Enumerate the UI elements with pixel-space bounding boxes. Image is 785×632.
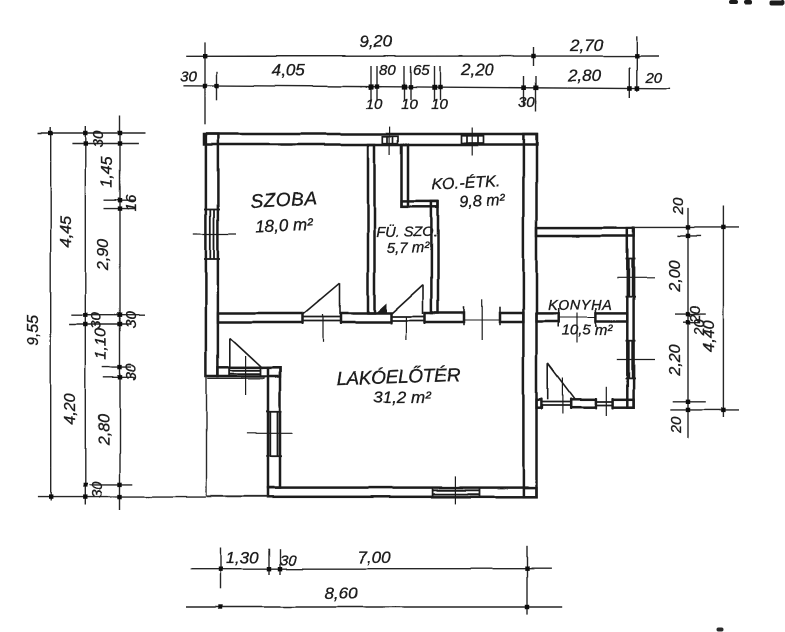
- svg-text:1,10: 1,10: [93, 328, 110, 359]
- chimney C2: [462, 128, 484, 156]
- wall left: [206, 134, 218, 377]
- wall L upper: [402, 145, 409, 207]
- dimension chains left: [38, 116, 206, 511]
- svg-text:5,7 m²: 5,7 m²: [387, 240, 431, 257]
- tick y401.8: [673, 401, 706, 403]
- dots bottom: [218, 567, 529, 610]
- svg-text:31,2 m²: 31,2 m²: [373, 388, 432, 407]
- svg-text:FÜ. SZO.: FÜ. SZO.: [376, 223, 437, 241]
- chain L2: [84, 126, 86, 505]
- window W4 bottom: [433, 489, 480, 491]
- ext y143.5: [72, 143, 139, 145]
- extension x205: [204, 42, 206, 124]
- extension x220.5: [220, 548, 222, 589]
- door D3 ko-etk opening: [464, 319, 500, 321]
- svg-text:2,20: 2,20: [460, 60, 495, 79]
- svg-text:8,60: 8,60: [324, 584, 358, 603]
- dimension chains right: [634, 206, 739, 438]
- svg-text:80: 80: [379, 62, 396, 79]
- door D2 swing: [422, 285, 424, 314]
- wall szoba east: [368, 145, 375, 314]
- svg-text:30: 30: [180, 68, 197, 85]
- ext y409.9: [670, 409, 739, 411]
- svg-text:20: 20: [644, 70, 662, 87]
- svg-text:16: 16: [123, 194, 140, 211]
- stray mark bottom edge: [716, 628, 723, 632]
- wall mid a: [218, 313, 303, 322]
- ext y315.2: [71, 314, 145, 316]
- window W2 sw: [229, 370, 260, 372]
- tick y200.2: [104, 199, 136, 201]
- chain L3: [119, 116, 121, 511]
- porch left line: [206, 377, 208, 497]
- svg-text:30: 30: [123, 363, 140, 380]
- door D1 swing: [339, 283, 341, 314]
- svg-text:10: 10: [431, 96, 448, 113]
- wall top: [204, 134, 537, 145]
- tick y322.2: [683, 321, 700, 323]
- dots top: [203, 54, 639, 91]
- door D1 szoba threshold: [303, 316, 341, 318]
- dim line C: [190, 568, 551, 570]
- svg-text:2,20: 2,20: [667, 344, 684, 376]
- dim line A: [186, 55, 659, 57]
- porch outline: [207, 377, 269, 497]
- wall annex east: [627, 228, 633, 408]
- svg-text:LAKÓELŐTÉR: LAKÓELŐTÉR: [336, 364, 461, 390]
- extension x217: [216, 71, 218, 100]
- tick pair x434 x440: [433, 66, 435, 100]
- svg-text:10,5 m²: 10,5 m²: [562, 322, 614, 339]
- svg-text:20: 20: [670, 197, 687, 215]
- svg-text:20: 20: [668, 416, 685, 434]
- svg-text:4,40: 4,40: [701, 320, 718, 351]
- dim labels top: [180, 32, 663, 113]
- wall annex divider b: [596, 313, 627, 321]
- wall annex divider a: [537, 313, 559, 321]
- dots left: [49, 131, 123, 500]
- svg-text:9,8 m²: 9,8 m²: [459, 192, 506, 211]
- wall L lower: [431, 201, 438, 313]
- door D7 sw swing: [229, 338, 231, 368]
- svg-text:SZOBA: SZOBA: [250, 188, 318, 212]
- tick pair x524 x536: [523, 76, 525, 106]
- chimney C1: [383, 127, 398, 155]
- svg-text:30: 30: [518, 94, 535, 111]
- window W5 annex east upper: [628, 259, 630, 297]
- ext y227.4: [634, 226, 739, 228]
- dim labels left (rotated): [25, 130, 140, 498]
- tick y367.1: [102, 366, 131, 368]
- wall annex top: [537, 228, 634, 236]
- door D6 annex bottom opening2: [596, 401, 613, 403]
- svg-text:2,00: 2,00: [667, 260, 684, 292]
- svg-text:30: 30: [88, 312, 105, 329]
- svg-text:4,45: 4,45: [58, 216, 75, 247]
- wall L horizontal: [402, 201, 439, 206]
- svg-text:7,00: 7,00: [357, 548, 391, 567]
- window W1 left (szoba): [209, 210, 211, 260]
- tick y377.3: [103, 376, 135, 378]
- dimension lines top: [183, 36, 669, 125]
- chain L1: [50, 127, 52, 501]
- svg-text:65: 65: [412, 62, 429, 79]
- wall annex bottom b: [571, 400, 596, 408]
- svg-text:30: 30: [280, 552, 297, 569]
- chain R2: [722, 206, 724, 417]
- window W3 west lower: [269, 411, 271, 455]
- wall mid d: [500, 313, 523, 322]
- black triangle threshold mark: [375, 303, 387, 314]
- ext y235.9: [677, 235, 701, 237]
- wall mid c: [425, 313, 464, 322]
- porch bottom line: [207, 495, 269, 497]
- walls group: [204, 134, 634, 497]
- door D4 annex divider opening: [558, 317, 596, 319]
- svg-text:KONYHA: KONYHA: [548, 298, 613, 314]
- svg-text:2,80: 2,80: [96, 414, 113, 446]
- tick x269: [268, 549, 270, 575]
- svg-text:4,05: 4,05: [272, 61, 306, 80]
- ext y497.1: [38, 496, 206, 498]
- svg-text:10: 10: [366, 96, 383, 113]
- ext y133: [38, 132, 146, 134]
- tick y208.6: [104, 208, 136, 210]
- door D5 swing: [547, 364, 549, 400]
- wall east: [523, 134, 536, 497]
- tick x629: [628, 67, 630, 98]
- wall west lower: [268, 368, 280, 488]
- svg-text:10: 10: [401, 96, 418, 113]
- tick x533.5: [533, 47, 535, 66]
- dim line B: [183, 85, 669, 89]
- svg-text:1,30: 1,30: [225, 548, 259, 567]
- svg-text:2,80: 2,80: [567, 66, 602, 85]
- svg-text:9,55: 9,55: [25, 314, 42, 345]
- wall annex bottom a: [537, 400, 542, 408]
- stray marks top edge: [729, 0, 785, 5]
- door D5 konyha threshold: [541, 401, 570, 403]
- svg-text:30: 30: [90, 130, 107, 147]
- doors: [230, 283, 613, 416]
- dim labels bottom: [225, 548, 391, 603]
- svg-text:30: 30: [123, 311, 140, 328]
- svg-text:2,90: 2,90: [95, 239, 112, 271]
- svg-text:18,0 m²: 18,0 m²: [255, 214, 315, 236]
- dots right: [686, 225, 726, 412]
- room labels: [250, 171, 613, 407]
- svg-text:1,45: 1,45: [99, 156, 116, 187]
- wall sw step: [218, 368, 280, 377]
- windows: [193, 210, 654, 504]
- chain R1: [687, 208, 689, 438]
- extension x636.8: [636, 36, 638, 92]
- window W6 annex east lower: [628, 341, 630, 379]
- ext y324.5: [69, 324, 131, 326]
- wall bottom: [268, 488, 537, 497]
- tick y484.9: [89, 484, 133, 486]
- extension x527: [526, 546, 528, 615]
- svg-text:2,70: 2,70: [569, 36, 604, 55]
- tick pair x404 x410: [403, 66, 405, 100]
- dim labels right (rotated): [667, 197, 718, 434]
- tick pair x371 x377: [370, 66, 372, 100]
- svg-text:30: 30: [89, 481, 106, 498]
- tick x280: [279, 549, 281, 575]
- dimension lines bottom: [186, 546, 562, 615]
- dim line D: [186, 606, 562, 608]
- svg-text:9,20: 9,20: [359, 32, 393, 51]
- wall annex bottom c: [613, 400, 634, 408]
- wall mid b: [341, 313, 391, 322]
- svg-text:4,20: 4,20: [62, 393, 79, 424]
- porch top line: [208, 378, 265, 380]
- door D2 fu.szo threshold: [391, 316, 425, 318]
- tick y314.1: [675, 313, 706, 315]
